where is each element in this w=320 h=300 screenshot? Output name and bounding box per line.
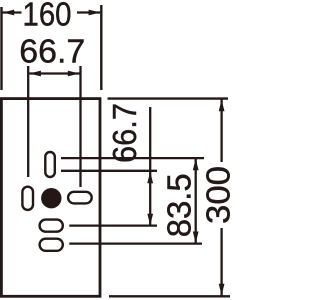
dim 83.5 right: dimension line (195, 158, 197, 243)
dim 300: top extension line (108, 97, 229, 99)
lower horizontal slot (40, 239, 63, 251)
svg-text:160: 160 (23, 0, 72, 33)
dim 160: left arrow (3, 10, 15, 16)
mounting hole (filled circle) (41, 188, 61, 208)
dim 83.5 right: down arrow (at L4) (193, 232, 199, 244)
dim 300: down arrow (219, 284, 225, 296)
dim 160: left extension line (0, 7, 2, 90)
dim 83.5 right: up arrow (at L1) (193, 159, 199, 171)
upper lower horizontal slot (40, 220, 63, 232)
fixture body outline (1, 99, 100, 297)
top vertical slot (45, 152, 55, 177)
dim 66.7 right: up arrow (below L2) (147, 172, 153, 184)
dim 66.7 top: left arrow (29, 71, 41, 77)
svg-text:66.7: 66.7 (19, 32, 85, 69)
horizontal slot, middle row (68, 192, 92, 204)
leader line L1 from top slot (upper) (61, 157, 204, 159)
dim 160: line right segment (77, 11, 100, 13)
dim 66.7 top: left extension line (27, 66, 29, 177)
dim 300: bottom extension line (109, 295, 230, 297)
dim 66.7 top: dimension line (29, 72, 79, 74)
dim 300: up arrow (219, 100, 225, 112)
svg-text:83.5: 83.5 (161, 173, 198, 237)
dim 160: right extension line (100, 5, 102, 90)
leader line L3 from upper lower slot (69, 224, 157, 226)
dim 66.7 right: down arrow (at L3) (147, 214, 153, 226)
svg-text:66.7: 66.7 (106, 103, 143, 163)
svg-text:300: 300 (200, 166, 237, 224)
dim 300: dimension line lower segment (220, 228, 222, 296)
dim 66.7 right: dimension line (149, 107, 151, 226)
left vertical slot (22, 187, 33, 210)
dim 66.7 top: right arrow (68, 71, 80, 77)
dim 300: dimension line upper segment (220, 100, 222, 163)
leader line L4 from lower slot (69, 242, 202, 244)
dim 66.7 top: right extension line (79, 66, 81, 187)
dim 160: right arrow (89, 10, 101, 16)
dim 160: line left segment (3, 11, 22, 13)
leader line L2 from top slot (lower) (61, 170, 157, 172)
